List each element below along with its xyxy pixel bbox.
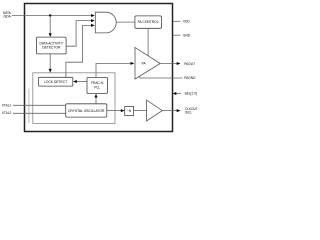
svg-text:PA CONTROL: PA CONTROL: [138, 20, 159, 24]
wire lock detect to AND gate input 3: [66, 24, 95, 77]
arrowhead DATA to AND gate input 1: [91, 14, 95, 17]
pin label CLKOUT/SCL: [185, 107, 198, 115]
svg-text:÷N: ÷N: [127, 109, 132, 113]
wire PAGND: [140, 76, 183, 78]
clock buffer: [147, 100, 163, 121]
frac-n pll block: [87, 77, 108, 93]
wire VDD stub: [173, 20, 180, 22]
divider N block: [125, 107, 134, 116]
svg-text:PLL: PLL: [94, 85, 100, 89]
wire CLKOUT: [162, 109, 180, 112]
wire detector to PLL section: [49, 54, 52, 73]
wire PAOUT: [160, 62, 180, 65]
wire GND stub: [173, 34, 180, 36]
svg-text:DETECTOR: DETECTOR: [42, 46, 61, 50]
node junction on DATA wire: [49, 14, 51, 16]
svg-text:XTAL1: XTAL1: [2, 103, 12, 107]
pin label DATA/SDA: [3, 11, 12, 19]
wire crystal oscillator to divider: [107, 109, 125, 112]
wire divider to clock buffer: [134, 110, 147, 112]
chip outline U1: [25, 4, 173, 132]
wire SEL input: [173, 92, 181, 95]
data activity detector block: [37, 37, 67, 54]
inner vertical rule (left of PLL section): [28, 89, 30, 124]
wire frac-n pll to lock detect: [73, 80, 87, 83]
svg-text:CRYSTAL OSCILLATOR: CRYSTAL OSCILLATOR: [68, 109, 105, 113]
PLL section sub-box: [33, 73, 115, 124]
svg-text:XTAL2: XTAL2: [2, 111, 12, 115]
wire XTAL1: [13, 104, 66, 106]
svg-text:PAOUT: PAOUT: [184, 62, 195, 66]
svg-text:PAGND: PAGND: [184, 76, 196, 80]
svg-text:SEL[1:0]: SEL[1:0]: [185, 92, 197, 96]
wire frac-n pll to PA input: [96, 62, 134, 78]
svg-text:LOCK DETECT: LOCK DETECT: [44, 80, 67, 84]
AND gate: [95, 12, 116, 33]
PA amplifier: [135, 47, 160, 79]
PA control block: [135, 16, 162, 28]
wire crystal oscillator to frac-n pll: [95, 94, 98, 104]
svg-text:/SDA: /SDA: [3, 15, 11, 19]
svg-text:/SCL: /SCL: [185, 111, 192, 115]
wire XTAL2: [13, 112, 66, 114]
wire AND gate to PA control: [116, 21, 135, 23]
lock detect block: [39, 77, 73, 86]
wire detector to AND gate input 2: [66, 19, 95, 46]
crystal oscillator block: [66, 104, 107, 117]
wire PA control to PA: [147, 28, 149, 55]
svg-text:VDD: VDD: [183, 19, 190, 23]
svg-text:GND: GND: [183, 33, 191, 37]
wire DATA input: [12, 15, 92, 17]
wire DATA to data activity detector: [49, 16, 52, 38]
